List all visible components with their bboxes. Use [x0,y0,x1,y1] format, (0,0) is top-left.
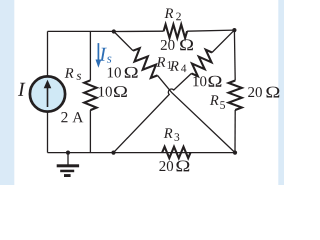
left margin band [0,0,14,185]
wire R2 left lead [114,30,164,32]
label 10 ohm R1 [108,67,121,77]
wire top-left horizontal [48,30,114,32]
wire Rs branch bottom [89,110,91,153]
label R3 [164,128,173,138]
wire right vertical top (R5 lead) [233,30,236,80]
wire Rs branch top [89,31,91,80]
right margin band [278,0,284,185]
wire left vertical lower [47,112,49,153]
label 20 ohm R3 [159,161,173,171]
wire left vertical [47,31,49,76]
wire R2 right lead [187,30,234,31]
label Rs [65,68,74,78]
ground [67,153,69,165]
label R5 [210,95,219,105]
node dot bottom-left bridge [111,151,115,155]
resistor R4 10 ohm diagonal with leads and crossover hop [114,30,235,153]
current source I circle [30,76,65,111]
wire right vertical bottom (R5 lead) [234,110,236,153]
current source arrow [47,88,49,108]
label 20 ohm R5 [248,87,262,97]
Is arrow (blue) [97,43,99,60]
wire bottom horizontal [48,152,236,154]
label 10 ohm R4 [193,76,206,86]
node dot ground tap [66,151,70,155]
resistor R1 10 ohm diagonal with leads [114,32,235,153]
node dot top-left [112,29,116,33]
node dot bottom-right [233,151,237,155]
resistor Rs 10 ohm [84,80,96,110]
label 20 ohm R2 [161,40,175,50]
label Is blue [99,48,107,61]
resistor R3 20 ohm [162,147,190,158]
label R4 [170,61,179,70]
resistor R5 20 ohm [229,81,242,111]
label 10 ohm Rs [99,87,112,97]
label R1 [157,57,166,66]
label I [18,83,26,96]
resistor R2 20 ohm [164,24,188,38]
label 2 A [61,112,83,122]
node dot top-right [232,28,236,32]
label R2 [165,9,174,19]
